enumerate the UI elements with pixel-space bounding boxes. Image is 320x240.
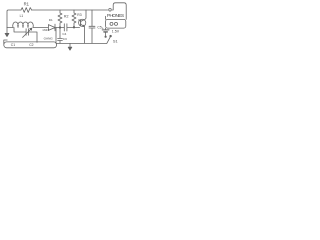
switch S1 lever	[107, 36, 111, 43]
wire coil to diode	[33, 27, 48, 29]
inductor L1	[13, 22, 34, 28]
svg-text:R1: R1	[24, 2, 30, 7]
svg-text:S1: S1	[113, 38, 118, 43]
svg-text:1.5V: 1.5V	[112, 30, 120, 34]
earth arrow centre	[69, 43, 71, 47]
svg-text:PHONES: PHONES	[107, 13, 124, 18]
transistor TR1 base bar	[80, 20, 82, 26]
svg-text:R2: R2	[64, 14, 69, 18]
capacitor C3 shunt lead	[59, 28, 61, 39]
svg-text:+: +	[102, 26, 104, 30]
transistor TR1 body	[79, 19, 86, 26]
wire top-right arc to phones	[112, 3, 126, 20]
capacitor C5	[89, 26, 95, 28]
wire diode cathode to bus	[55, 28, 57, 44]
svg-text:C1: C1	[11, 43, 15, 47]
diode D1	[48, 24, 55, 31]
svg-text:1N34: 1N34	[42, 28, 49, 32]
wire phones left lead	[105, 16, 107, 19]
capacitor C3	[58, 38, 63, 40]
phones earpiece left	[110, 22, 113, 25]
node phone terminal	[109, 9, 112, 12]
transistor TR1 emitter wire to bottom bus	[81, 24, 85, 43]
svg-text:C2: C2	[29, 43, 33, 47]
battery B1	[102, 29, 109, 31]
battery bottom lead	[105, 33, 107, 37]
gang capacitor enclosure tab	[4, 40, 7, 44]
wire bottom bus	[57, 42, 107, 44]
node switch contact	[105, 36, 106, 37]
transistor TR1 emitter arrow	[83, 25, 84, 26]
resistor R1	[21, 8, 32, 13]
svg-text:GANG: GANG	[44, 37, 54, 41]
wire diode to cap	[56, 27, 64, 29]
node switch pole	[110, 35, 112, 37]
wire left horizontal to coil	[7, 27, 13, 29]
svg-text:D1: D1	[49, 18, 53, 22]
capacitor C5 top lead	[91, 10, 93, 26]
capacitor C5 bottom lead	[91, 28, 93, 43]
transistor TR1	[79, 10, 86, 43]
capacitor C4 (series coupling)	[64, 24, 67, 31]
svg-text:C3: C3	[63, 37, 67, 41]
transistor TR1 collector wire to top bus	[81, 10, 86, 22]
resistor R3	[72, 10, 76, 27]
variable capacitor C1/C2 plates	[26, 29, 28, 35]
wire top bus right of R1	[32, 9, 108, 11]
battery B1 lead	[105, 28, 107, 29]
wire cap to transistor base	[67, 27, 79, 29]
phones box	[106, 19, 126, 28]
gang capacitor enclosure	[4, 42, 57, 48]
wire top bus left of R1 and left vertical bus	[7, 10, 21, 28]
wire tuning branch	[14, 28, 37, 43]
node R2-detector junction	[59, 27, 61, 29]
phones earpiece right	[115, 22, 118, 25]
svg-text:C4: C4	[62, 32, 66, 36]
earth arrow left	[6, 28, 8, 34]
node R3-base junction	[73, 27, 75, 29]
variable capacitor arrow	[23, 28, 32, 37]
svg-text:L1: L1	[20, 14, 24, 18]
resistor R2	[58, 10, 62, 28]
svg-text:R3: R3	[77, 13, 81, 17]
